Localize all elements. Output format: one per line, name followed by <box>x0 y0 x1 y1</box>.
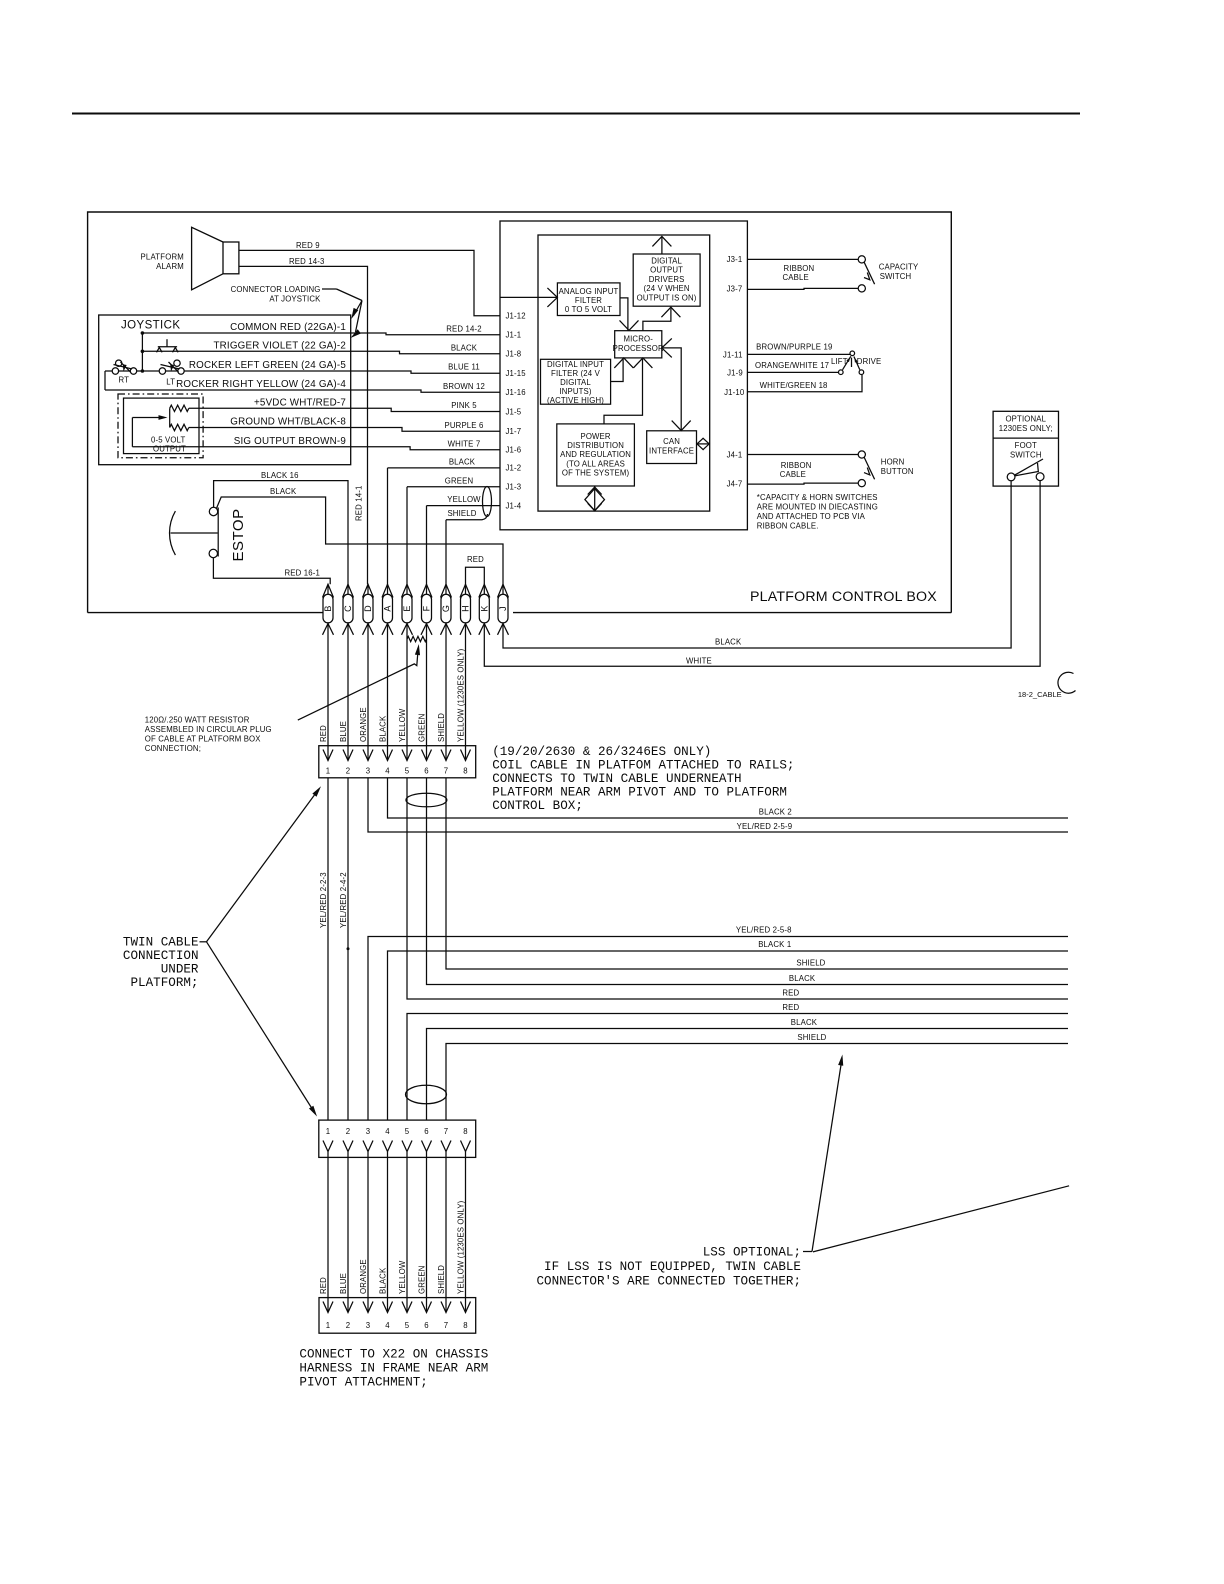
wire pin A vertical <box>387 468 389 584</box>
wire rocker left row <box>105 370 351 372</box>
wire J1-9 orange/white <box>747 371 838 373</box>
svg-text:WHITE 7: WHITE 7 <box>448 439 481 448</box>
svg-text:PLATFORM NEAR ARM PIVOT AND TO: PLATFORM NEAR ARM PIVOT AND TO PLATFORM <box>492 786 787 800</box>
LSS diagonal line <box>813 1186 1069 1252</box>
svg-text:8: 8 <box>463 1321 468 1330</box>
svg-text:JOYSTICK: JOYSTICK <box>121 320 180 332</box>
svg-text:SHIELD: SHIELD <box>797 1033 826 1042</box>
wire trigger row <box>142 350 350 352</box>
svg-text:J1-9: J1-9 <box>727 369 743 378</box>
wire J4-1 <box>747 454 858 456</box>
svg-text:1: 1 <box>326 1127 331 1136</box>
wire RED 9 to J1-12 <box>239 250 500 315</box>
svg-text:HARNESS IN FRAME NEAR ARM: HARNESS IN FRAME NEAR ARM <box>299 1362 488 1376</box>
svg-text:RED: RED <box>782 1003 799 1012</box>
svg-text:AND ATTACHED TO PCB VIA: AND ATTACHED TO PCB VIA <box>757 512 866 521</box>
connector X1 pin arrow 7 <box>441 750 451 761</box>
horn button SW-HORN <box>858 451 865 458</box>
svg-text:(ACTIVE HIGH): (ACTIVE HIGH) <box>547 396 604 405</box>
potentiometer inner box <box>124 398 200 454</box>
wire WHITE pin K to foot switch <box>484 481 1040 666</box>
wire BLACK 16 estop to pin C <box>214 481 348 585</box>
leader branch 2 <box>356 301 363 333</box>
junction <box>141 331 145 335</box>
arrowhead at connector X2 <box>309 1106 317 1117</box>
wire X2-X3 pin 7 <box>445 1157 447 1312</box>
wire pin to connector1 pin 7 <box>445 635 447 761</box>
svg-text:J1-12: J1-12 <box>506 312 526 321</box>
svg-text:OF THE SYSTEM): OF THE SYSTEM) <box>562 469 630 478</box>
cable bundle ellipse at J1 <box>483 487 492 517</box>
wire RED lower <box>407 1014 1068 1121</box>
estop switch S-ESTOP <box>209 507 217 515</box>
svg-text:PURPLE 6: PURPLE 6 <box>445 421 484 430</box>
svg-text:GREEN: GREEN <box>445 476 473 485</box>
wire YEL/RED 2-5-8 <box>368 937 1068 1121</box>
svg-text:D: D <box>363 605 373 612</box>
svg-text:4: 4 <box>385 767 390 776</box>
svg-text:*CAPACITY & HORN SWITCHES: *CAPACITY & HORN SWITCHES <box>757 493 878 502</box>
block U-DOD digital output drivers <box>633 254 700 306</box>
svg-text:4: 4 <box>385 1321 390 1330</box>
lift/drive selector switch <box>850 351 855 356</box>
svg-text:YEL/RED 2-5-9: YEL/RED 2-5-9 <box>737 822 793 831</box>
connector X3 pin arrow 7 <box>441 1302 451 1313</box>
svg-text:CONNECTOR LOADING: CONNECTOR LOADING <box>231 285 321 294</box>
wire pin G vertical <box>445 520 447 585</box>
foot switch pedal <box>1015 459 1044 475</box>
svg-text:ROCKER LEFT GREEN (24 GA)-5: ROCKER LEFT GREEN (24 GA)-5 <box>189 360 346 371</box>
foot switch contacts <box>1007 473 1015 481</box>
svg-text:DRIVERS: DRIVERS <box>649 275 685 284</box>
pot wiper arrow <box>132 417 163 419</box>
svg-text:3: 3 <box>366 767 371 776</box>
svg-text:YEL/RED 2-4-2: YEL/RED 2-4-2 <box>339 872 348 928</box>
wire BLACK pin J to foot switch <box>503 481 1011 648</box>
potentiometer dashed enclosure <box>118 394 203 458</box>
svg-text:J1-3: J1-3 <box>506 483 522 492</box>
leader to connector X1 <box>207 790 319 942</box>
svg-text:BLUE: BLUE <box>339 1273 348 1294</box>
svg-text:INTERFACE: INTERFACE <box>649 446 694 455</box>
wire pin to connector1 pin 1 <box>327 635 329 761</box>
svg-text:J3-7: J3-7 <box>727 285 743 294</box>
svg-text:H: H <box>461 605 471 612</box>
svg-text:SHIELD: SHIELD <box>437 1265 446 1294</box>
svg-text:J1-2: J1-2 <box>506 464 522 473</box>
svg-text:C: C <box>343 605 353 612</box>
svg-text:PLATFORM: PLATFORM <box>141 253 184 262</box>
leader dash <box>322 288 337 290</box>
svg-text:F: F <box>422 605 432 611</box>
connector X1 pin arrow 4 <box>383 750 393 761</box>
connector X1 pin arrow 1 <box>323 750 333 761</box>
svg-text:YEL/RED 2-5-8: YEL/RED 2-5-8 <box>736 926 792 935</box>
svg-text:SHIELD: SHIELD <box>447 509 476 518</box>
wire common vertical <box>141 333 143 371</box>
cable bundle ellipse X2 <box>406 1085 447 1103</box>
svg-text:J1-8: J1-8 <box>506 350 522 359</box>
svg-text:WHITE/GREEN 18: WHITE/GREEN 18 <box>760 381 828 390</box>
svg-text:BLACK 1: BLACK 1 <box>758 940 791 949</box>
svg-text:DRIVE: DRIVE <box>857 357 882 366</box>
connector X2 pin arrow 8 <box>461 1141 471 1152</box>
wire X2-X3 pin 1 <box>327 1157 329 1312</box>
capacity switch arrow <box>864 273 870 280</box>
svg-text:7: 7 <box>444 1321 449 1330</box>
arrow AIF to MP <box>620 298 628 331</box>
svg-text:RED 9: RED 9 <box>296 241 320 250</box>
svg-text:ESTOP: ESTOP <box>230 508 247 561</box>
svg-text:GREEN: GREEN <box>418 1266 427 1294</box>
connector X2 pin arrow 5 <box>402 1141 412 1152</box>
svg-text:DIGITAL INPUT: DIGITAL INPUT <box>547 360 604 369</box>
wire +5VDC row <box>189 407 351 409</box>
svg-text:SWITCH: SWITCH <box>880 272 912 281</box>
rocker switch LT <box>159 368 165 374</box>
svg-text:BLACK: BLACK <box>379 715 388 742</box>
svg-text:IF LSS IS NOT EQUIPPED, TWIN C: IF LSS IS NOT EQUIPPED, TWIN CABLE <box>544 1260 801 1274</box>
wire SHIELD upper <box>446 778 1068 969</box>
twin cable dash <box>200 941 207 943</box>
rocker switch RT <box>112 368 118 374</box>
svg-text:DISTRIBUTION: DISTRIBUTION <box>567 441 624 450</box>
svg-text:8: 8 <box>463 1127 468 1136</box>
svg-text:0 TO 5 VOLT: 0 TO 5 VOLT <box>565 305 612 314</box>
svg-text:YELLOW: YELLOW <box>398 708 407 742</box>
wire pin to connector1 pin 4 <box>387 635 389 761</box>
connector X3 pin arrow 4 <box>383 1302 393 1313</box>
svg-text:BLACK: BLACK <box>791 1018 818 1027</box>
svg-text:7: 7 <box>444 767 449 776</box>
svg-text:(TO ALL AREAS: (TO ALL AREAS <box>566 459 625 468</box>
svg-text:ASSEMBLED IN CIRCULAR PLUG: ASSEMBLED IN CIRCULAR PLUG <box>145 725 272 734</box>
svg-text:BLACK: BLACK <box>449 457 476 466</box>
connector pin C <box>343 594 353 623</box>
diamond power flow symbol <box>594 486 596 511</box>
svg-text:RED: RED <box>319 1277 328 1294</box>
svg-text:J: J <box>498 606 508 611</box>
svg-text:TWIN CABLE: TWIN CABLE <box>123 936 199 950</box>
wire BLACK <box>351 351 500 354</box>
junction speck on wire 2 <box>347 947 350 950</box>
svg-text:ORANGE: ORANGE <box>359 707 368 742</box>
svg-text:5: 5 <box>405 1321 410 1330</box>
svg-text:RIBBON CABLE.: RIBBON CABLE. <box>757 522 819 531</box>
connector X2 pin arrow 4 <box>383 1141 393 1152</box>
wire RT left corner <box>104 371 106 390</box>
svg-text:J3-1: J3-1 <box>727 255 743 264</box>
svg-text:CONTROL BOX;: CONTROL BOX; <box>492 799 583 813</box>
svg-text:PROCESSOR: PROCESSOR <box>613 344 664 353</box>
svg-text:18-2_CABLE: 18-2_CABLE <box>1018 690 1062 699</box>
wire RED upper <box>407 778 1068 999</box>
connector X2 pin arrow 3 <box>363 1141 373 1152</box>
wire pot junction vertical <box>169 408 171 427</box>
svg-text:J1-11: J1-11 <box>723 351 743 360</box>
svg-text:YELLOW (1230ES ONLY): YELLOW (1230ES ONLY) <box>457 648 466 742</box>
svg-text:6: 6 <box>424 767 429 776</box>
svg-text:DIGITAL: DIGITAL <box>560 378 591 387</box>
estop contact bar <box>217 508 219 557</box>
wire BLACK lower <box>427 1029 1069 1121</box>
wire BLACK estop to pin J <box>217 497 504 584</box>
connector X3 pin arrow 8 <box>461 1302 471 1313</box>
lift/drive divider <box>851 358 853 367</box>
cable bundle ellipse X1 <box>406 793 447 807</box>
svg-text:CONNECTS TO TWIN CABLE UNDERNE: CONNECTS TO TWIN CABLE UNDERNEATH <box>492 772 741 786</box>
svg-text:J1-5: J1-5 <box>506 407 522 416</box>
connector pin D <box>363 594 373 623</box>
svg-text:K: K <box>480 605 490 611</box>
connector X3 pin arrow 3 <box>363 1302 373 1313</box>
svg-text:OUTPUT: OUTPUT <box>650 266 683 275</box>
PCB box <box>500 221 747 530</box>
wire RED 14-2 <box>351 333 500 335</box>
svg-text:CAPACITY: CAPACITY <box>879 262 919 271</box>
svg-text:SWITCH: SWITCH <box>1010 450 1042 459</box>
block U-DIF digital input filter <box>541 359 611 404</box>
wire BLACK J1-2 horizontal <box>388 467 501 469</box>
connector X1 pin arrow 5 <box>402 750 412 761</box>
svg-text:INPUTS): INPUTS) <box>559 387 591 396</box>
svg-text:E: E <box>402 605 412 611</box>
resistor R-120ohm <box>407 636 427 641</box>
trigger contact right <box>173 348 179 353</box>
svg-text:ORANGE: ORANGE <box>359 1259 368 1294</box>
wire pin to connector1 pin 2 <box>347 635 349 761</box>
wire J3-1 <box>747 258 858 260</box>
svg-text:J1-16: J1-16 <box>506 388 526 397</box>
wire wiper to sig row <box>131 418 133 447</box>
svg-text:COIL CABLE IN PLATFOM ATTACHED: COIL CABLE IN PLATFOM ATTACHED TO RAILS; <box>492 759 794 773</box>
double arrow CAN to box edge <box>697 443 710 445</box>
wire J1-11 brown/purple <box>747 353 850 355</box>
wire X2-X3 pin 2 <box>347 1157 349 1312</box>
svg-text:RED 14-3: RED 14-3 <box>289 257 324 266</box>
wire BLACK upper <box>427 778 1069 985</box>
wire common red row <box>142 332 350 334</box>
svg-text:6: 6 <box>424 1321 429 1330</box>
svg-text:OF CABLE AT PLATFORM BOX: OF CABLE AT PLATFORM BOX <box>145 735 261 744</box>
svg-text:LSS OPTIONAL;: LSS OPTIONAL; <box>703 1246 801 1260</box>
svg-text:RED 14-1: RED 14-1 <box>355 486 364 521</box>
wire pin E vertical <box>406 487 408 585</box>
connector pin B <box>323 594 333 623</box>
connector pin H <box>461 594 471 623</box>
svg-text:ANALOG INPUT: ANALOG INPUT <box>559 287 619 296</box>
wire 2 to connector X2 <box>347 778 349 1120</box>
wire RED 16-1 estop to pin B <box>213 558 330 585</box>
wire 1 to connector X2 <box>327 778 329 1120</box>
svg-text:(24 V WHEN: (24 V WHEN <box>644 284 690 293</box>
block U-MP micro-processor <box>615 331 662 358</box>
svg-text:MICRO-: MICRO- <box>623 335 653 344</box>
svg-text:OUTPUT IS ON): OUTPUT IS ON) <box>637 293 697 302</box>
svg-text:OUTPUT: OUTPUT <box>153 444 186 453</box>
connector X1 box <box>319 746 476 778</box>
connector pin F <box>422 594 432 623</box>
svg-text:2: 2 <box>346 1127 351 1136</box>
svg-text:PINK 5: PINK 5 <box>451 401 477 410</box>
wire X2-X3 pin 3 <box>367 1157 369 1312</box>
svg-text:PLATFORM CONTROL BOX: PLATFORM CONTROL BOX <box>750 589 937 605</box>
svg-text:SIG OUTPUT BROWN-9: SIG OUTPUT BROWN-9 <box>234 436 346 447</box>
svg-text:(19/20/2630 & 26/3246ES ONLY): (19/20/2630 & 26/3246ES ONLY) <box>492 745 711 759</box>
arrow MP to DOD <box>643 309 671 331</box>
svg-text:J4-1: J4-1 <box>727 451 743 460</box>
svg-text:4: 4 <box>385 1127 390 1136</box>
wire BLACK 1 <box>388 951 1069 1120</box>
connector X3 box <box>319 1298 476 1334</box>
svg-text:LT: LT <box>166 378 175 387</box>
svg-text:CONNECTOR'S ARE CONNECTED TOGE: CONNECTOR'S ARE CONNECTED TOGETHER; <box>536 1275 801 1289</box>
svg-text:BROWN 12: BROWN 12 <box>443 382 485 391</box>
connector pin K <box>479 594 489 623</box>
wire J4-7 <box>747 483 858 484</box>
svg-text:UNDER: UNDER <box>161 963 199 977</box>
svg-text:J1-4: J1-4 <box>506 501 522 510</box>
svg-text:CONNECTION;: CONNECTION; <box>145 744 201 753</box>
connector pin J <box>498 594 508 623</box>
svg-text:RED: RED <box>319 725 328 742</box>
svg-text:J1-7: J1-7 <box>506 427 522 436</box>
foot switch pedal underside <box>1015 463 1039 476</box>
leader branch 1 <box>354 301 363 316</box>
wire PINK 5 <box>351 408 500 411</box>
svg-text:WHITE: WHITE <box>686 656 712 665</box>
wire J1-10 white/green <box>747 375 862 392</box>
svg-text:BLACK 16: BLACK 16 <box>261 471 299 480</box>
svg-text:BLACK: BLACK <box>715 638 742 647</box>
wire PURPLE 6 <box>351 428 500 432</box>
svg-text:SHIELD: SHIELD <box>796 959 825 968</box>
wire SHIELD lower <box>446 1044 1068 1121</box>
arrowhead at common red wire <box>351 329 361 338</box>
joystick box <box>99 315 351 465</box>
svg-text:YELLOW: YELLOW <box>447 495 481 504</box>
capacity switch SW-CAP <box>858 256 865 263</box>
wire sig output row <box>132 446 350 448</box>
svg-text:0-5 VOLT: 0-5 VOLT <box>151 436 186 445</box>
svg-text:CONNECT TO X22 ON CHASSIS: CONNECT TO X22 ON CHASSIS <box>299 1348 488 1362</box>
wire pin to connector1 pin 6 <box>426 635 428 761</box>
svg-text:BLACK: BLACK <box>379 1267 388 1294</box>
resistor R-pot upper <box>170 405 189 411</box>
svg-text:6: 6 <box>424 1127 429 1136</box>
connector X1 pin arrow 3 <box>363 750 373 761</box>
svg-text:1: 1 <box>326 767 331 776</box>
connector X1 pin arrow 6 <box>422 750 432 761</box>
svg-text:ALARM: ALARM <box>156 262 184 271</box>
leader to connector X2 <box>207 942 315 1113</box>
wire YEL/RED 2-5-9 <box>368 778 1068 832</box>
svg-text:ARE MOUNTED IN DIECASTING: ARE MOUNTED IN DIECASTING <box>757 503 878 512</box>
connector X2 pin arrow 6 <box>422 1141 432 1152</box>
arrow DOD up to box edge <box>661 237 663 254</box>
svg-text:PIVOT ATTACHMENT;: PIVOT ATTACHMENT; <box>299 1376 427 1390</box>
svg-text:YEL/RED 2-2-3: YEL/RED 2-2-3 <box>319 872 328 928</box>
svg-text:TRIGGER VIOLET (22 GA)-2: TRIGGER VIOLET (22 GA)-2 <box>213 340 346 351</box>
svg-text:LIFT: LIFT <box>831 357 848 366</box>
junction <box>141 369 145 373</box>
wire pin to connector1 pin 3 <box>367 635 369 761</box>
wire J3-7 <box>747 288 858 289</box>
svg-text:J4-7: J4-7 <box>727 479 743 488</box>
svg-text:CAN: CAN <box>663 437 680 446</box>
arrow PD to MP <box>604 359 643 424</box>
svg-text:AND REGULATION: AND REGULATION <box>560 450 631 459</box>
svg-text:POWER: POWER <box>580 432 610 441</box>
svg-text:SHIELD: SHIELD <box>437 713 446 742</box>
svg-text:BLACK: BLACK <box>270 487 297 496</box>
svg-text:YELLOW (1230ES ONLY): YELLOW (1230ES ONLY) <box>457 1200 466 1294</box>
svg-text:FOOT: FOOT <box>1015 441 1037 450</box>
wire SHIELD to cable ellipse <box>446 514 488 520</box>
connector X2 pin arrow 1 <box>323 1141 333 1152</box>
svg-text:RED: RED <box>782 989 799 998</box>
svg-text:OPTIONAL: OPTIONAL <box>1005 415 1046 424</box>
arrow CAN line to MP <box>663 348 681 430</box>
svg-text:5: 5 <box>405 1127 410 1136</box>
svg-text:BLACK: BLACK <box>789 974 816 983</box>
connector X2 pin arrow 7 <box>441 1141 451 1152</box>
connector X1 pin arrow 2 <box>343 750 353 761</box>
estop actuator line <box>171 532 218 534</box>
wire RED 14-3 / RED 14-1 vertical to pin D <box>239 266 368 584</box>
svg-text:BLACK 2: BLACK 2 <box>759 808 792 817</box>
svg-text:120Ω/.250 WATT RESISTOR: 120Ω/.250 WATT RESISTOR <box>145 716 250 725</box>
wire GREEN J1-3 horizontal <box>407 486 500 488</box>
connector X3 pin arrow 6 <box>422 1302 432 1313</box>
svg-text:ORANGE/WHITE 17: ORANGE/WHITE 17 <box>755 361 829 370</box>
svg-text:J1-10: J1-10 <box>724 388 745 397</box>
svg-text:RT: RT <box>119 375 130 384</box>
svg-text:2: 2 <box>346 767 351 776</box>
arrowhead at joystick corner <box>351 308 358 319</box>
wire BLUE 11 <box>351 371 500 373</box>
svg-text:GREEN: GREEN <box>418 714 427 742</box>
svg-text:B: B <box>323 605 333 611</box>
connector X3 pin arrow 5 <box>402 1302 412 1313</box>
arrow DIF to MP <box>611 359 624 382</box>
leader line <box>337 289 363 301</box>
wire pin to connector1 pin 5 <box>406 635 408 761</box>
leader to shield wire <box>812 1059 842 1252</box>
wire X2-X3 pin 8 <box>465 1157 467 1312</box>
wire pin to connector1 pin 8 <box>465 635 467 761</box>
svg-text:J1-1: J1-1 <box>506 331 522 340</box>
svg-text:RED 14-2: RED 14-2 <box>446 324 481 333</box>
connector X1 pin arrow 8 <box>461 750 471 761</box>
wire X2-X3 pin 6 <box>426 1157 428 1312</box>
svg-text:AT JOYSTICK: AT JOYSTICK <box>269 295 321 304</box>
cable loop arc <box>1058 672 1076 693</box>
LSS dash <box>803 1251 812 1253</box>
leader to resistor <box>298 648 418 720</box>
connector pin A <box>383 594 393 623</box>
svg-text:HORN: HORN <box>881 458 905 467</box>
wire X2-X3 pin 5 <box>406 1157 408 1312</box>
svg-text:+5VDC WHT/RED-7: +5VDC WHT/RED-7 <box>254 397 346 408</box>
connector pin E <box>402 594 412 623</box>
connector X3 pin arrow 1 <box>323 1302 333 1313</box>
svg-text:8: 8 <box>463 767 468 776</box>
svg-text:J1-6: J1-6 <box>506 446 522 455</box>
wire RED jumper pins H-K <box>466 567 485 584</box>
resistor R-pot lower <box>170 424 189 430</box>
horn button arrow <box>864 468 870 475</box>
